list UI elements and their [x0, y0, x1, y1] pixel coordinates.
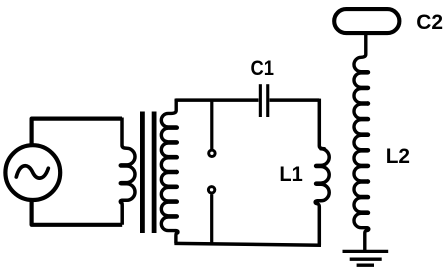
capacitor C1 plate 1 [259, 84, 262, 117]
ac source [5, 145, 60, 200]
inductor L1 [315, 99, 329, 246]
wire tank loop bottom [174, 243, 321, 245]
svg-text:L2: L2 [386, 144, 410, 168]
spark gap upper electrode [209, 150, 215, 156]
wire left loop bottom [32, 200, 123, 225]
secondary inductor L2 [354, 34, 369, 252]
wire spark gap lower stem [210, 194, 213, 244]
wire left loop top [32, 119, 122, 145]
wire spark gap upper stem [210, 99, 213, 149]
transformer secondary winding [161, 99, 178, 244]
toroid C2 [334, 9, 399, 33]
transformer primary winding [120, 118, 135, 225]
ac sine wave [16, 166, 48, 178]
svg-text:C1: C1 [251, 56, 275, 80]
svg-text:L1: L1 [279, 162, 303, 186]
transformer core bar 1 [140, 112, 145, 234]
transformer core bar 2 [152, 112, 157, 234]
spark gap lower electrode [208, 187, 214, 193]
ground line 3 [357, 264, 374, 267]
svg-text:C2: C2 [416, 10, 443, 34]
ground line 1 [343, 250, 389, 253]
wire tank loop top [176, 98, 319, 102]
ground line 2 [350, 258, 382, 261]
capacitor C1 plate 2 [266, 84, 269, 117]
